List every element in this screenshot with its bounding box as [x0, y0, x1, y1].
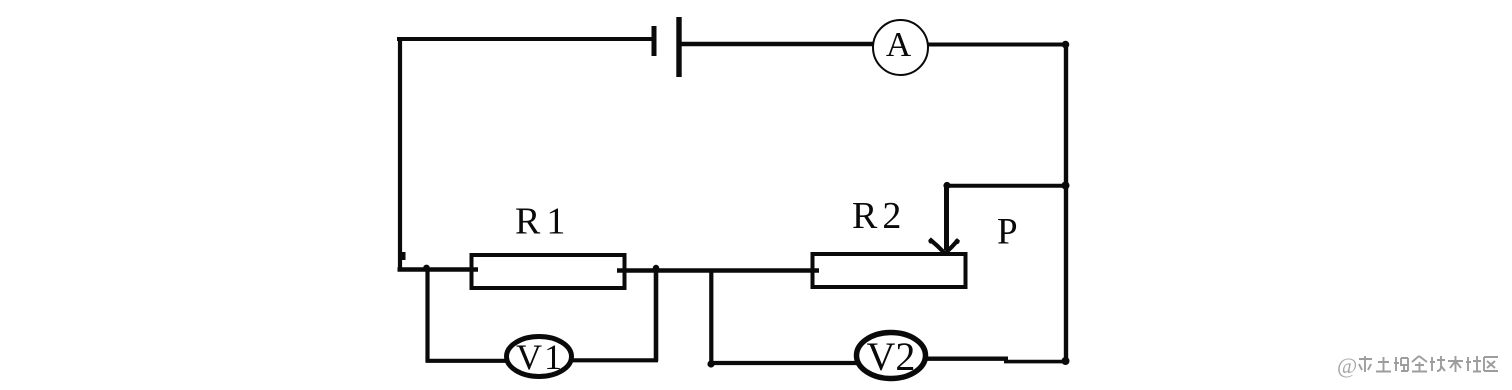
- wire V2 left vertical branch: [709, 269, 713, 366]
- junction dot top-right corner: [1062, 41, 1070, 49]
- wire V1 right horizontal: [570, 358, 658, 362]
- voltmeter V1 ellipse: [507, 337, 572, 377]
- wire right vertical: [1064, 44, 1068, 364]
- wire V2 right horizontal segment 1: [924, 357, 1008, 361]
- wire V1 left horizontal: [426, 359, 509, 363]
- wire left vertical: [398, 37, 402, 271]
- battery plate long (positive): [676, 17, 681, 77]
- svg-text:R2: R2: [852, 195, 906, 237]
- svg-text:A: A: [886, 25, 912, 64]
- wiper vertical stem: [944, 184, 949, 250]
- wire wiper top horizontal: [946, 184, 1066, 188]
- junction dot wiper left: [943, 182, 950, 189]
- wire battery to ammeter: [677, 42, 874, 46]
- wire V1 right vertical branch: [654, 269, 659, 362]
- junction dot bottom-right corner: [1062, 357, 1070, 365]
- wire V2 left horizontal: [710, 361, 859, 365]
- watermark: [1337, 353, 1498, 378]
- node nub on left vertical: [399, 252, 406, 260]
- svg-text:P: P: [997, 212, 1018, 253]
- wire V2 right horizontal segment 2: [1004, 360, 1066, 364]
- svg-text:R1: R1: [515, 201, 571, 243]
- junction dot V2 left bottom: [707, 360, 714, 367]
- battery plate short (negative): [652, 26, 657, 56]
- wire main left segment to R1: [398, 267, 479, 271]
- junction dot V1 right branch: [653, 265, 659, 271]
- resistor R2 box: [813, 254, 966, 287]
- wiper arrowhead right flick: [954, 239, 959, 244]
- voltmeter V2 ellipse: [857, 333, 926, 379]
- svg-text:V1: V1: [516, 337, 564, 377]
- ammeter A circle: [873, 20, 928, 75]
- wiper arrowhead left flick: [928, 238, 933, 243]
- resistor R1 box: [472, 255, 625, 288]
- wire main middle segment R1 to R2: [617, 268, 819, 272]
- svg-text:@: @: [1337, 353, 1357, 378]
- svg-text:V2: V2: [867, 334, 916, 379]
- wire V1 left vertical branch: [425, 268, 429, 362]
- wire ammeter to top-right corner: [928, 43, 1067, 47]
- wiper arrowhead: [930, 239, 959, 254]
- junction dot wiper right: [1062, 182, 1070, 190]
- wire top-left horizontal (battery negative to left corner): [397, 37, 654, 41]
- junction dot V1 left branch: [423, 265, 430, 272]
